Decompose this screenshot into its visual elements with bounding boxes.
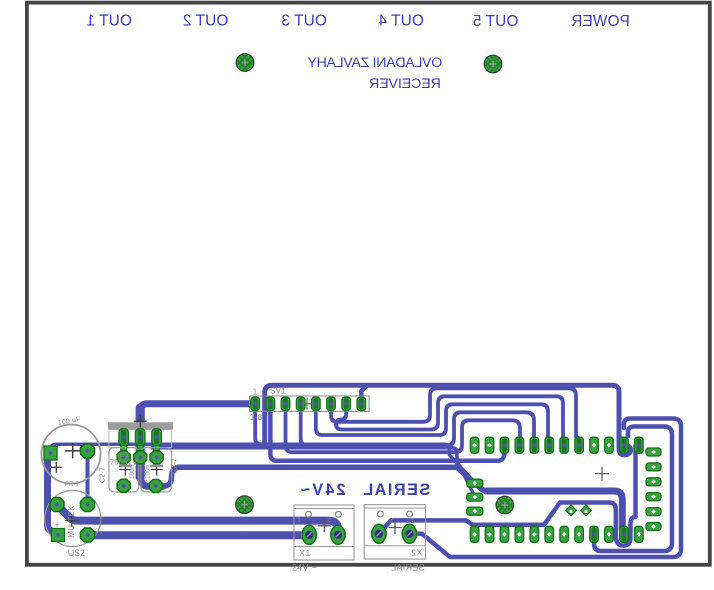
svg-text:OUT 3: OUT 3 <box>281 13 327 30</box>
svg-text:2: 2 <box>327 517 331 524</box>
svg-text:OUT 4: OUT 4 <box>378 13 424 30</box>
svg-text:X1: X1 <box>299 548 310 558</box>
svg-text:SERIAL: SERIAL <box>391 563 425 573</box>
svg-text:PR-7: PR-7 <box>65 482 80 488</box>
svg-text:100n: 100n <box>130 465 136 479</box>
svg-text:POWER: POWER <box>571 13 630 30</box>
svg-text:C2-7: C2-7 <box>172 458 179 474</box>
svg-text:SERIAL: SERIAL <box>362 481 430 499</box>
svg-text:SV1: SV1 <box>270 387 286 396</box>
svg-text:1-8: 1-8 <box>250 413 263 422</box>
svg-text:MU-TEK: MU-TEK <box>67 505 76 538</box>
svg-text:24V~: 24V~ <box>298 481 345 499</box>
svg-text:C2-7: C2-7 <box>100 467 107 483</box>
svg-text:X2: X2 <box>411 548 422 558</box>
svg-text:1: 1 <box>253 388 258 397</box>
svg-text:2: 2 <box>389 518 393 525</box>
svg-text:OUT 1: OUT 1 <box>86 13 132 30</box>
svg-text:OUT 2: OUT 2 <box>183 13 229 30</box>
svg-text:U$2: U$2 <box>68 548 85 558</box>
svg-text:OUT 5: OUT 5 <box>473 13 519 30</box>
svg-text:100n: 100n <box>146 465 152 479</box>
svg-text:RECEIVER: RECEIVER <box>369 76 441 92</box>
svg-text:OVLADANI ZAVLAHY: OVLADANI ZAVLAHY <box>307 55 442 71</box>
svg-text:24V ~: 24V ~ <box>292 563 317 573</box>
svg-text:+: + <box>54 520 59 530</box>
svg-text:1: 1 <box>297 517 301 524</box>
